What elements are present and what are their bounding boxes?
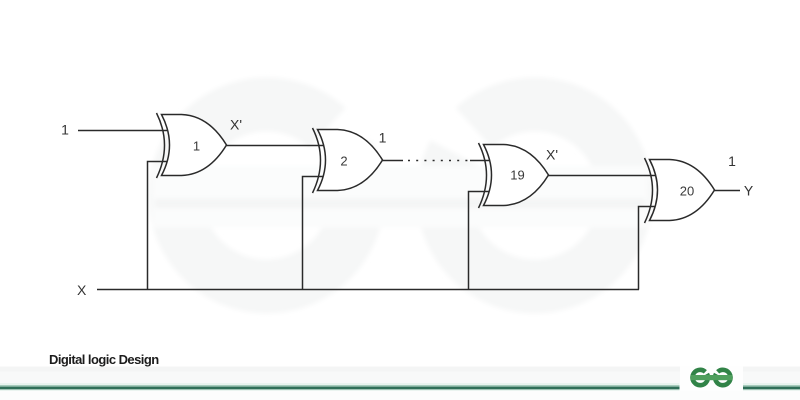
watermark left G ring	[176, 104, 358, 286]
logo right G	[715, 370, 730, 385]
svg-text:1: 1	[379, 130, 387, 146]
svg-text:20: 20	[680, 184, 694, 199]
svg-text:19: 19	[510, 168, 524, 183]
svg-text:Digital logic Design: Digital logic Design	[49, 352, 159, 367]
footer band	[0, 367, 800, 372]
wire gate20 output Y	[715, 190, 741, 192]
xor gate U2	[313, 128, 383, 193]
wire X bus	[97, 289, 639, 291]
logo left G	[693, 370, 708, 385]
wire gate19 output to gate20	[549, 175, 656, 177]
svg-text:X': X'	[546, 147, 558, 163]
green divider right	[743, 383, 800, 390]
svg-text:1: 1	[61, 122, 69, 138]
wire gate2 lower loop	[303, 177, 324, 290]
wire gate19 lower loop	[469, 192, 490, 290]
watermark right G ring	[444, 104, 626, 286]
logo backdrop patch	[680, 367, 743, 391]
wire input 1 to gate 1	[78, 130, 167, 132]
svg-text:1: 1	[193, 139, 200, 154]
svg-text:2: 2	[340, 153, 347, 168]
svg-text:X: X	[77, 282, 87, 298]
xor gate U20	[645, 158, 715, 223]
green divider left	[0, 383, 680, 390]
svg-text:Y: Y	[744, 183, 754, 199]
logo bar	[691, 375, 733, 380]
footer caption	[49, 352, 159, 367]
wire dotted ellipsis	[408, 160, 470, 162]
wire into gate19	[470, 160, 490, 162]
xor gate U1	[157, 113, 227, 178]
svg-text:1: 1	[728, 153, 736, 169]
wire gate2 output solid	[383, 160, 404, 162]
watermark bar	[153, 166, 648, 228]
wire gate1 output to gate2	[227, 145, 324, 147]
wire gate20 lower loop	[639, 207, 656, 290]
watermark bar core stripe	[155, 199, 645, 209]
svg-text:X': X'	[230, 117, 242, 133]
xor gate U19	[479, 143, 549, 208]
wire gate1 lower loop	[148, 162, 168, 290]
